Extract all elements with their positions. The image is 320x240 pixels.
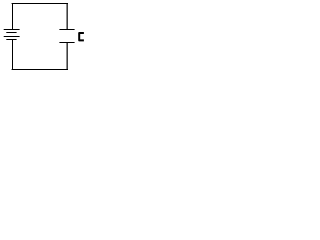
wire right lower — [66, 43, 68, 70]
label C — [79, 33, 84, 40]
capacitor C — [59, 30, 74, 43]
wire left lower — [12, 40, 14, 70]
wire bottom — [12, 69, 68, 71]
wire top — [12, 3, 68, 5]
wire left upper — [12, 4, 14, 30]
wire right upper — [66, 4, 68, 30]
battery B1 — [4, 30, 20, 40]
